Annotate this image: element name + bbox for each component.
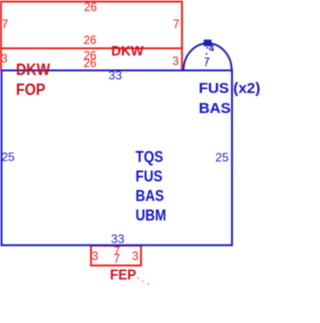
- svg-text:BAS: BAS: [136, 188, 165, 205]
- svg-text:25: 25: [215, 150, 229, 164]
- svg-text:7: 7: [114, 253, 120, 265]
- svg-text:7: 7: [204, 56, 209, 67]
- svg-text:FOP: FOP: [16, 81, 45, 99]
- svg-text:4: 4: [209, 44, 215, 55]
- svg-text:FUS: FUS: [136, 169, 163, 186]
- svg-text:3: 3: [92, 251, 98, 263]
- svg-text:BAS: BAS: [199, 100, 231, 117]
- svg-text:TQS: TQS: [136, 149, 164, 166]
- svg-text:FUS (x2): FUS (x2): [199, 80, 261, 97]
- svg-text:DKW: DKW: [111, 43, 143, 58]
- svg-text:FEP: FEP: [110, 266, 136, 283]
- svg-text:26: 26: [84, 35, 97, 47]
- svg-text:33: 33: [109, 69, 123, 83]
- svg-text:3: 3: [172, 56, 178, 68]
- svg-text:3: 3: [1, 54, 7, 66]
- svg-text:26: 26: [84, 2, 97, 14]
- svg-text:7: 7: [173, 19, 179, 31]
- svg-text:UBM: UBM: [136, 208, 167, 225]
- svg-text:DKW: DKW: [16, 61, 51, 79]
- svg-text:33: 33: [111, 232, 125, 246]
- svg-text:26: 26: [84, 58, 97, 70]
- svg-text:7: 7: [2, 19, 8, 31]
- svg-text:25: 25: [1, 150, 15, 164]
- svg-text:3: 3: [132, 251, 138, 263]
